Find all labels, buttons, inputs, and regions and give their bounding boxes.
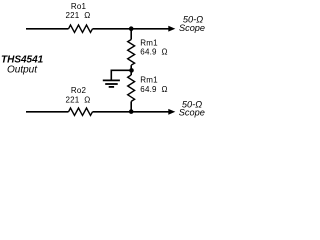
ground bar 3 <box>109 86 114 88</box>
svg-text:Ro2: Ro2 <box>71 86 87 95</box>
svg-text:Ro1: Ro1 <box>71 2 87 11</box>
arrowhead to bottom scope <box>168 109 175 115</box>
svg-text:64.9 Ω: 64.9 Ω <box>140 48 167 57</box>
svg-text:Output: Output <box>7 65 38 76</box>
svg-text:Rm1: Rm1 <box>140 76 158 85</box>
svg-text:Rm1: Rm1 <box>140 39 158 48</box>
wire top rail left segment <box>26 28 69 30</box>
svg-text:221 Ω: 221 Ω <box>66 11 91 20</box>
wire bottom rail left segment <box>26 111 69 113</box>
node bottom junction <box>129 109 134 114</box>
wire top rail right segment <box>93 28 171 30</box>
node top junction <box>129 26 134 31</box>
resistor Rm1 (lower) <box>128 75 135 101</box>
wire Rm1 lower to bottom rail <box>130 101 132 111</box>
wire from Rm1 to mid node <box>130 65 132 70</box>
wire bottom rail right segment <box>93 111 171 113</box>
svg-text:Scope: Scope <box>179 108 205 118</box>
svg-text:64.9 Ω: 64.9 Ω <box>140 85 167 94</box>
resistor Ro2 <box>69 108 93 115</box>
resistor Ro1 <box>69 25 93 32</box>
svg-text:Scope: Scope <box>179 23 205 33</box>
ground bar 2 <box>105 83 118 85</box>
resistor Rm1 (upper) <box>128 40 135 66</box>
node mid junction <box>129 68 134 73</box>
wire mid node to ground <box>111 70 131 80</box>
wire from top junction down <box>130 29 132 40</box>
svg-text:221 Ω: 221 Ω <box>66 96 91 105</box>
wire mid node down <box>130 71 132 76</box>
ground bar 1 <box>103 79 120 81</box>
arrowhead to top scope <box>168 26 175 32</box>
